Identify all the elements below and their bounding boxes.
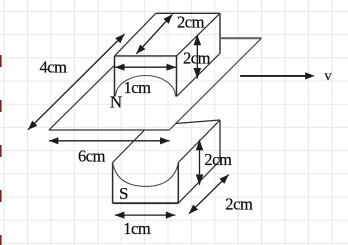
dimension arrow 1cm (N-block width): [115, 64, 176, 71]
dimension arrow 6cm (plate bottom): [49, 137, 170, 144]
S-block bottom right edge: [178, 161, 220, 204]
S-block front left edge: [112, 163, 114, 204]
N-block back right edge: [219, 13, 221, 53]
svg-text:6cm: 6cm: [78, 147, 106, 166]
S-block top back edge: [176, 120, 220, 124]
N-block top back edge: [156, 12, 220, 14]
red dash 1 (left edge): [0, 55, 2, 67]
dimension arrow 2cm (S-block height): [196, 140, 204, 185]
red dash 2 (left edge): [0, 100, 2, 112]
plate left edge: [49, 65, 115, 130]
dimension arrow 1cm (S-block width): [115, 212, 175, 219]
dimension arrow 2cm (N-block depth): [136, 14, 172, 54]
svg-text:N: N: [110, 92, 122, 111]
S-block top left edge: [113, 130, 145, 162]
S-block front bottom edge: [113, 202, 179, 204]
plate top edge: [221, 37, 262, 39]
svg-text:4cm: 4cm: [40, 58, 68, 77]
red dash 3 (left edge): [0, 145, 2, 157]
S-block front right edge: [177, 163, 179, 204]
N-block bottom right edge: [177, 53, 221, 96]
red dash 5 (left edge): [0, 235, 2, 245]
red dash 4 (left edge): [0, 190, 2, 202]
S-block back right edge: [219, 120, 221, 161]
svg-text:v: v: [325, 69, 332, 84]
S-block groove arc: [113, 163, 179, 187]
svg-text:2cm: 2cm: [204, 150, 232, 169]
N-block front top edge: [115, 55, 177, 57]
svg-text:1cm: 1cm: [124, 78, 152, 97]
N-block front left edge: [114, 56, 116, 97]
svg-text:2cm: 2cm: [177, 13, 205, 32]
dimension arrow 2cm (N-block height): [194, 35, 202, 79]
N-block front right edge: [176, 56, 178, 97]
plate bottom edge: [49, 129, 169, 131]
dimension arrow 2cm (S-block depth): [189, 175, 229, 214]
svg-text:S: S: [119, 184, 128, 203]
S-block top right edge: [178, 120, 220, 163]
svg-text:2cm: 2cm: [183, 49, 211, 68]
svg-text:1cm: 1cm: [123, 219, 151, 238]
velocity arrow v: [240, 72, 315, 79]
plate right edge: [169, 38, 261, 130]
dimension arrow 4cm (plate side): [28, 34, 125, 130]
N-block top left edge: [115, 13, 156, 56]
svg-text:2cm: 2cm: [225, 195, 253, 214]
N-block top right edge: [177, 13, 221, 56]
N-block groove arc: [116, 76, 176, 97]
